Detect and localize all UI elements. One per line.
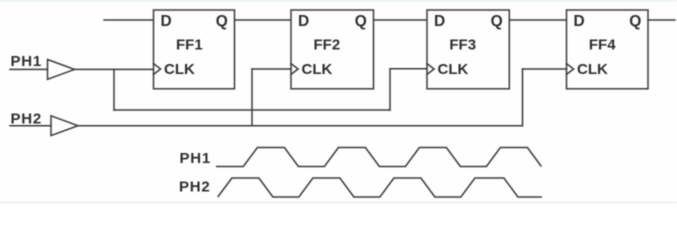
svg-text:D: D [434,13,445,30]
svg-text:FF3: FF3 [449,37,476,54]
wire D input to FF1 [104,19,154,21]
wire PH2 riser to FF4 [522,69,524,126]
wire PH2 input to buffer [10,125,51,127]
flip-flop U4 box FF4 [567,10,649,89]
svg-text:PH1: PH1 [11,53,43,70]
svg-text:Q: Q [629,13,641,30]
wire PH1 branch down at x=114 [113,69,115,110]
svg-text:CLK: CLK [438,61,469,78]
svg-text:CLK: CLK [164,61,195,78]
wire PH1 branch horizontal [114,109,390,111]
buffer B2 (PH2) [51,116,78,136]
FF4 CLK wedge [567,64,574,75]
svg-text:PH2: PH2 [179,178,211,195]
svg-text:Q: Q [216,13,228,30]
flip-flop U1 box FF1 [154,10,235,89]
buffer B1 (PH1) [48,60,75,80]
wire FF2.Q to FF3.D [374,19,428,21]
svg-text:D: D [161,13,172,30]
waveform PH2 trace [218,178,542,197]
svg-text:D: D [298,13,309,30]
wire PH2 to FF4 CLK [523,68,567,70]
wire PH2 to FF2 CLK [252,68,291,70]
wire PH1 input to buffer [10,68,48,70]
wire PH2 riser to FF2 [251,69,253,126]
svg-text:FF1: FF1 [176,37,203,54]
wire FF3.Q to FF4.D [509,19,566,21]
svg-text:PH1: PH1 [180,150,212,167]
svg-text:CLK: CLK [577,61,608,78]
svg-text:FF4: FF4 [589,37,616,54]
wire PH1 branch to FF3 CLK [390,68,427,70]
svg-text:CLK: CLK [302,61,333,78]
svg-text:D: D [574,13,585,30]
FF2 CLK wedge [291,64,298,75]
top page-edge blue band [0,0,677,1]
FF3 CLK wedge [427,64,434,75]
wire PH1 buffer to FF1 CLK [75,68,154,70]
flip-flop U2 box FF2 [291,10,374,89]
FF1 CLK wedge [154,64,161,75]
svg-text:Q: Q [491,13,503,30]
flip-flop U3 box FF3 [427,10,509,89]
svg-text:PH2: PH2 [11,111,43,128]
svg-text:FF2: FF2 [314,37,341,54]
wire FF4.Q output [648,19,675,21]
wire PH2 buffer rail [78,125,523,127]
waveform PH1 trace [216,148,541,167]
wire PH1 branch up to FF3 [389,69,391,110]
wire FF1.Q to FF2.D [235,19,292,21]
svg-text:Q: Q [355,13,367,30]
bottom page-edge blue line [0,202,677,203]
